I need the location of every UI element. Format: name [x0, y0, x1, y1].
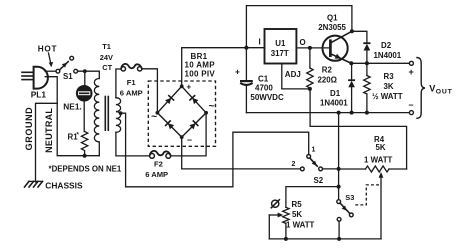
svg-text:1 WATT: 1 WATT	[364, 156, 393, 165]
svg-text:ADJ: ADJ	[285, 70, 301, 79]
node D2 bottom R3 top	[365, 61, 369, 65]
svg-text:+: +	[187, 83, 192, 92]
svg-text:*: *	[77, 133, 80, 139]
terminal Vout plus	[409, 61, 413, 65]
wire main vertical to S3	[338, 113, 340, 200]
node D1 bottom	[350, 111, 354, 115]
node bridge top	[180, 84, 184, 88]
svg-text:–: –	[409, 100, 414, 110]
svg-text:CHASSIS: CHASSIS	[45, 181, 83, 191]
wire top loop to Q1 collector	[246, 6, 352, 48]
resistor R3	[364, 63, 370, 112]
node collector	[350, 29, 354, 33]
svg-text:1 WATT: 1 WATT	[286, 221, 315, 230]
svg-text:R5: R5	[292, 200, 303, 209]
bridge diamond	[157, 86, 206, 137]
brace Vout	[416, 58, 425, 119]
svg-text:CT: CT	[102, 63, 112, 72]
svg-text:220Ω: 220Ω	[318, 76, 338, 85]
regulator U1	[265, 29, 297, 64]
wire F1 to bridge left	[142, 69, 158, 113]
svg-text:50WVDC: 50WVDC	[250, 93, 284, 102]
wire F2 to bridge right	[171, 113, 206, 156]
node bridge bottom	[180, 135, 184, 139]
switch S2	[300, 155, 322, 171]
node emitter	[349, 61, 353, 65]
wire S2 pole to junction	[323, 168, 339, 170]
svg-text:5K: 5K	[292, 210, 302, 219]
svg-text:10 AMP: 10 AMP	[185, 61, 216, 70]
wire U1 output to Q1 base	[296, 47, 330, 49]
node C1 top junction	[244, 46, 248, 50]
svg-text:D2: D2	[381, 41, 392, 50]
svg-text:F1: F1	[127, 78, 137, 87]
bridge diode bottom-right	[189, 121, 198, 130]
switch S3	[337, 200, 353, 222]
screwdriver adjust symbol	[271, 200, 279, 208]
arrow from HOT to hot wire	[49, 53, 54, 67]
svg-text:100 PIV: 100 PIV	[185, 69, 216, 78]
neon lamp NE1	[77, 86, 92, 101]
wire ground branch	[36, 103, 58, 182]
transformer T1 primary winding	[94, 79, 99, 156]
wire CT to S2 contact 1	[121, 113, 309, 187]
node bridge right	[204, 111, 208, 115]
bridge diode top-right	[190, 96, 199, 105]
wire collector to D2 top	[352, 31, 367, 43]
svg-text:6 AMP: 6 AMP	[120, 89, 143, 98]
wire secondary bottom to F2	[116, 132, 149, 156]
bridge diode top-left	[165, 96, 174, 105]
wire ADJ node down and right to R4 right end	[310, 89, 407, 169]
ADJ pin box	[282, 64, 310, 89]
node S1/NE1 junction	[83, 69, 87, 73]
svg-text:R2: R2	[322, 66, 333, 75]
fuse F1	[121, 64, 142, 71]
svg-text:1N4001: 1N4001	[374, 51, 402, 60]
bridge rectifier BR1 dashed box	[148, 81, 215, 146]
wire bridge minus to S2 contact 2	[182, 137, 301, 169]
wire output minus rail	[246, 112, 409, 114]
svg-text:T1: T1	[102, 42, 111, 51]
svg-text:R3: R3	[384, 72, 395, 81]
svg-text:D1: D1	[330, 89, 341, 98]
node bridge left	[156, 111, 160, 115]
chassis ground symbol	[25, 181, 43, 187]
svg-text:S3: S3	[345, 193, 354, 202]
svg-text:S2: S2	[314, 176, 324, 185]
svg-text:GROUND: GROUND	[24, 107, 34, 151]
node S2 rail top	[337, 111, 341, 115]
wire R4 left lead	[339, 168, 366, 170]
wire bridge plus to U1 input rail	[182, 48, 265, 87]
dashed link S3 to R4 wiper	[355, 185, 379, 205]
wire NE1 to R1	[83, 102, 85, 132]
transistor Q1	[323, 31, 352, 63]
svg-text:Q1: Q1	[327, 13, 338, 22]
label VOUT	[429, 83, 452, 95]
wire secondary top to F1	[116, 69, 121, 98]
svg-text:–: –	[187, 135, 192, 145]
node ADJ junction	[308, 87, 312, 91]
svg-text:+: +	[235, 67, 240, 77]
svg-text:NEUTRAL: NEUTRAL	[44, 108, 54, 153]
wire plug to S1	[45, 70, 56, 72]
node CT tap	[119, 111, 123, 115]
svg-text:F2: F2	[154, 160, 163, 169]
svg-text:2: 2	[292, 161, 296, 168]
svg-text:HOT: HOT	[38, 44, 57, 53]
node R5 branch junction	[337, 185, 341, 189]
plug PL1	[22, 67, 48, 89]
svg-text:U1: U1	[275, 39, 286, 48]
resistor R5	[283, 207, 289, 239]
wire R4 right lead	[389, 168, 407, 170]
node R1 bottom junction	[83, 154, 87, 158]
bridge diode bottom-left	[166, 121, 175, 130]
svg-text:4700: 4700	[255, 83, 273, 92]
svg-text:1: 1	[312, 147, 316, 154]
svg-text:PL1: PL1	[31, 90, 47, 100]
svg-text:*DEPENDS ON NE1: *DEPENDS ON NE1	[49, 165, 122, 174]
svg-text:2N3055: 2N3055	[318, 23, 346, 32]
R5 wiper arrow	[269, 213, 283, 239]
diode D1	[348, 63, 355, 112]
diode D2	[363, 43, 370, 63]
switch S1	[56, 56, 78, 73]
wire neutral: plug down to bottom row	[45, 77, 99, 156]
svg-text:6 AMP: 6 AMP	[145, 170, 168, 179]
capacitor C1	[240, 48, 253, 113]
svg-text:NE1.: NE1.	[63, 101, 81, 111]
svg-text:½ WATT: ½ WATT	[372, 92, 403, 101]
svg-text:OUT: OUT	[436, 88, 453, 95]
fuse F2	[150, 151, 171, 158]
svg-text:1N4001: 1N4001	[320, 99, 348, 108]
wire emitter rail to Vout plus	[351, 62, 409, 64]
svg-text:317T: 317T	[271, 49, 289, 58]
svg-text:~: ~	[209, 100, 215, 112]
svg-text:+: +	[409, 67, 414, 77]
node S3 on rail	[337, 237, 341, 241]
R4 wiper arrow	[379, 172, 384, 239]
terminal Vout minus	[409, 111, 413, 115]
svg-text:I: I	[259, 38, 261, 47]
transformer T1 secondary winding	[116, 98, 121, 133]
svg-text:C1: C1	[258, 75, 269, 84]
wire junction to NE1 top	[84, 71, 86, 85]
node R3 bottom	[365, 111, 369, 115]
svg-text:3K: 3K	[384, 82, 394, 91]
wire bottom rail	[269, 238, 381, 240]
wire S1 to transformer primary top	[78, 71, 100, 78]
svg-text:S1: S1	[63, 72, 73, 81]
wire S3 bottom to rail	[338, 221, 340, 239]
node R5 bottom on rail	[284, 237, 288, 241]
svg-text:~: ~	[151, 111, 157, 123]
node S2 pole junction	[337, 167, 341, 171]
resistor R1	[81, 132, 87, 156]
svg-text:O: O	[300, 38, 306, 47]
svg-text:24V: 24V	[100, 53, 113, 62]
svg-text:5K: 5K	[376, 143, 386, 152]
resistor R2	[307, 48, 313, 89]
resistor R4	[366, 166, 390, 172]
transformer T1 core	[105, 97, 108, 131]
node output	[308, 46, 312, 50]
wire to R5 top	[286, 187, 339, 208]
